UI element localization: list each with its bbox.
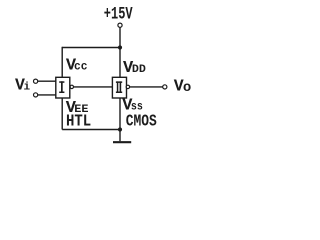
Vo label xyxy=(174,76,192,95)
Vi label xyxy=(15,75,31,94)
wire II to Vo terminal xyxy=(130,86,163,88)
VEE label xyxy=(66,99,89,118)
svg-text:i: i xyxy=(24,82,31,94)
wire VEE vertical (box I down) xyxy=(61,98,63,130)
wire input upper xyxy=(38,80,56,82)
block I box xyxy=(56,77,70,98)
wire Vcc vertical (top wire down to box I) xyxy=(61,47,63,78)
node junction bottom xyxy=(118,127,122,131)
block II box xyxy=(112,77,126,98)
input terminal lower xyxy=(34,93,38,97)
svg-text:+15V: +15V xyxy=(104,5,133,25)
input terminal upper xyxy=(34,79,38,83)
svg-text:DD: DD xyxy=(132,64,146,76)
Vo output terminal xyxy=(163,85,167,89)
svg-text:HTL: HTL xyxy=(66,112,91,131)
ground stem xyxy=(119,130,121,142)
wire I to II xyxy=(74,86,113,88)
wire Vss vertical (box II down) xyxy=(119,98,121,130)
wire input lower xyxy=(38,94,56,96)
wire supply vertical xyxy=(119,27,121,77)
node junction top xyxy=(118,45,122,49)
wire bottom horizontal xyxy=(62,129,120,131)
block II numeral II xyxy=(116,81,122,93)
svg-text:o: o xyxy=(183,80,191,96)
VDD label xyxy=(123,59,146,78)
svg-text:cc: cc xyxy=(74,60,88,74)
ground bar xyxy=(113,141,131,143)
block I output bubble xyxy=(70,85,73,88)
Vcc label xyxy=(66,57,88,76)
wire top horizontal xyxy=(62,47,120,49)
Vss label xyxy=(122,97,143,116)
block II output bubble xyxy=(126,85,129,88)
block I numeral I xyxy=(59,81,64,93)
+15V terminal xyxy=(118,23,122,27)
svg-text:CMOS: CMOS xyxy=(126,112,157,131)
